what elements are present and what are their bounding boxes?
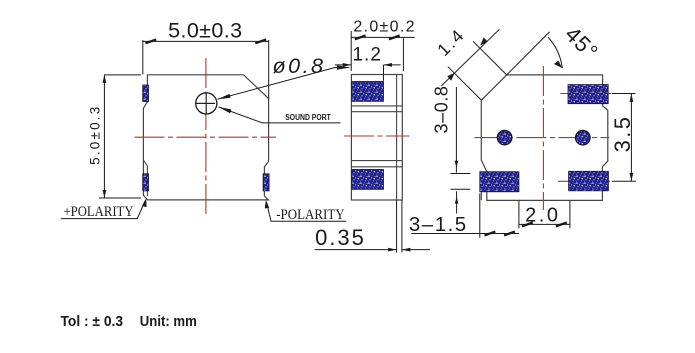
leader ø0.8 — [218, 68, 349, 100]
extra wall segment bottom-left — [480, 192, 482, 200]
notch wall detail left — [143, 160, 147, 196]
dimension 2.0: dim line — [519, 223, 570, 225]
dim lines + arrows — [315, 249, 397, 251]
dimension 3.5: bottom extension line — [612, 180, 636, 182]
dim line with overshoot — [351, 36, 415, 38]
dimension 5.0±0.3 top: left extension line — [142, 40, 144, 75]
dimension 3-0.8: upper extension line — [451, 173, 471, 175]
arrowhead up — [103, 75, 107, 83]
svg-text:Tol : ± 0.3: Tol : ± 0.3 — [61, 313, 124, 330]
dimension 5.0±0.3 left: top extension line — [104, 74, 141, 76]
dimension 5.0±0.3 top: dim line — [143, 40, 269, 42]
crosshair horizontal bar — [196, 102, 215, 104]
red vertical centerline — [205, 58, 207, 217]
extension line 1.2 — [383, 65, 385, 81]
arc arrowhead — [554, 61, 562, 69]
dimension 5.0±0.3 left: dim line — [103, 75, 105, 198]
dimension 0.35: right extension line below body — [401, 200, 403, 253]
svg-text:1.2: 1.2 — [352, 45, 381, 66]
tick right 1.5 — [504, 232, 515, 236]
tick right — [389, 36, 400, 40]
arrowhead down — [103, 190, 107, 198]
dimension 3.5: top extension line — [612, 93, 636, 95]
body outline R — [481, 75, 608, 200]
tick left 2.0 — [522, 223, 533, 227]
hole circle right — [576, 130, 591, 145]
svg-text:0.35: 0.35 — [315, 225, 366, 250]
dimension 5.0±0.3 left: bottom extension line — [99, 197, 141, 199]
extension line 1.5 — [479, 194, 481, 238]
leader -POLARITY — [267, 203, 347, 222]
dimension 5.0±0.3 top: right extension line — [268, 40, 270, 99]
arrowhead up 3.5 — [630, 94, 634, 102]
dimension 3-0.8: lower dim line with up arrow — [456, 191, 458, 213]
dimension 45deg: arc — [548, 37, 562, 68]
hole circle left — [497, 130, 512, 145]
dimension 1.4: lower 45deg extension line — [448, 67, 481, 100]
dimension 3-1.5: dim line — [411, 233, 519, 235]
tick left — [145, 40, 156, 44]
dimension 3-0.8: upper dim line with down arrow — [455, 87, 457, 173]
svg-text:ø0.8: ø0.8 — [272, 54, 325, 78]
svg-text:+POLARITY: +POLARITY — [64, 204, 134, 220]
red vertical centerline — [542, 66, 544, 210]
svg-text:3.5: 3.5 — [610, 115, 635, 153]
dimension 2.0: left extension line — [518, 201, 520, 229]
svg-text:3–0.8: 3–0.8 — [432, 85, 452, 133]
dimension 45deg: chamfer extension line — [507, 32, 550, 75]
svg-text:SOUND PORT: SOUND PORT — [285, 113, 331, 122]
dimension 2.0: right extension line — [569, 201, 571, 229]
tick right — [255, 40, 266, 44]
svg-text:Unit: mm: Unit: mm — [140, 313, 197, 330]
pad bottom-right — [569, 171, 609, 191]
svg-text:-POLARITY: -POLARITY — [276, 207, 345, 223]
svg-text:2.0±0.2: 2.0±0.2 — [353, 18, 415, 35]
pad side bottom — [352, 170, 384, 190]
svg-text:2.0: 2.0 — [525, 204, 560, 226]
dimension 3.5: dim line — [630, 94, 632, 182]
pad bottom-left — [480, 172, 519, 192]
pad left-top — [143, 85, 149, 102]
pad top-right — [568, 85, 608, 104]
red centerline — [344, 135, 410, 137]
body rect — [351, 75, 402, 201]
dimension 0.35: left extension line below body — [396, 200, 398, 253]
leader SOUND PORT — [219, 107, 341, 123]
pad side top — [352, 82, 384, 102]
tick right 2.0 — [556, 223, 567, 227]
red horizontal centerline — [135, 136, 277, 138]
arrowhead upper 1.4 — [480, 37, 487, 45]
arrowhead down 3.5 — [630, 173, 634, 181]
red pad centerline top — [560, 93, 611, 95]
dimension 2.0±0.2: right extension line — [402, 37, 404, 71]
seam lines upper — [351, 105, 402, 107]
pad left-bottom — [143, 174, 149, 191]
red pad centerline bottom — [558, 180, 610, 182]
dimension 3-0.8: lower extension line — [451, 188, 471, 190]
inner wall line — [396, 75, 398, 201]
crosshair vertical bar — [205, 93, 207, 113]
arrowhead lower 1.4 — [447, 73, 454, 81]
body outline L1 — [143, 75, 268, 200]
svg-text:3–1.5: 3–1.5 — [409, 213, 468, 236]
seam lines lower — [351, 160, 402, 162]
dim line diagonal with outside arrows — [441, 29, 499, 86]
dimension 2.0±0.2: left extension line — [350, 31, 352, 71]
pad right-bottom — [263, 174, 269, 191]
svg-text:5.0±0.3: 5.0±0.3 — [88, 105, 103, 165]
dimension 1.4: upper 45deg extension line — [473, 41, 507, 75]
red horizontal centerline — [474, 137, 609, 139]
tick left — [355, 36, 366, 40]
svg-text:5.0±0.3: 5.0±0.3 — [168, 18, 242, 42]
tick left 1.5 — [485, 232, 496, 236]
sound port circle — [196, 93, 217, 114]
seam line upper 2 — [351, 111, 402, 113]
leader +POLARITY — [61, 201, 145, 219]
seam line lower 2 — [351, 166, 402, 168]
dimension 1.2: arrows outside — [335, 64, 351, 66]
